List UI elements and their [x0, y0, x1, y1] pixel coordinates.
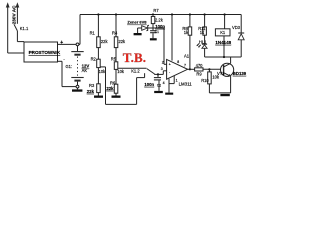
wire — [97, 93, 99, 96]
svg-text:7: 7 — [184, 63, 186, 67]
svg-text:470: 470 — [196, 63, 204, 68]
node R8 top — [189, 13, 191, 15]
svg-text:+: + — [60, 40, 63, 46]
resistor R4 — [112, 30, 126, 47]
svg-text:VD3: VD3 — [232, 25, 241, 30]
wire pin 3 — [158, 71, 167, 75]
collector node wire — [205, 56, 242, 58]
wire pin 8 — [171, 15, 173, 61]
svg-text:A1: A1 — [184, 54, 190, 59]
svg-text:R4: R4 — [112, 30, 118, 35]
resistor R5 — [111, 56, 125, 74]
resistor R7 — [151, 8, 163, 24]
wire pin 1 — [169, 76, 174, 84]
svg-text:C1: C1 — [155, 30, 159, 34]
ground R3 — [94, 96, 103, 98]
svg-text:T.B.: T.B. — [123, 50, 146, 65]
ground C1 — [150, 38, 157, 40]
wire — [97, 68, 99, 84]
top supply bus — [80, 14, 241, 16]
zener diode VD1 6V8 — [138, 25, 149, 33]
resistor R2 — [91, 56, 107, 74]
svg-text:LM311: LM311 — [179, 81, 193, 86]
switch K1.2 — [147, 69, 158, 75]
svg-text:AK: AK — [82, 68, 88, 73]
wire pin 2 — [164, 63, 167, 65]
ground zener — [134, 33, 142, 35]
node R10 top — [208, 68, 210, 70]
wire — [189, 15, 191, 27]
resistor R11 — [198, 26, 206, 35]
node R1 top — [97, 13, 99, 15]
svg-text:R6: R6 — [110, 80, 116, 85]
wire K1 to collector node — [223, 36, 225, 57]
svg-text:Zener 6V8: Zener 6V8 — [127, 20, 147, 25]
wire — [97, 48, 99, 60]
svg-text:8: 8 — [177, 60, 179, 64]
wire R8 to output node — [189, 35, 191, 69]
battery minus terminal — [76, 85, 79, 88]
wire — [204, 15, 206, 27]
wire — [115, 15, 117, 37]
wire op-amp output — [188, 68, 195, 70]
wire — [204, 35, 206, 44]
node pin8 top — [171, 13, 173, 15]
capacitor C2 — [154, 74, 161, 91]
wire — [115, 48, 117, 62]
battery plus terminal — [76, 43, 79, 46]
node K1 top — [224, 13, 226, 15]
node R4 top — [115, 13, 117, 15]
ground R6 — [112, 96, 121, 98]
svg-text:C2: C2 — [157, 84, 161, 88]
ground op-amp — [165, 93, 173, 95]
switch K1.1 — [14, 24, 24, 41]
svg-text:K1: K1 — [220, 30, 226, 35]
svg-text:2: 2 — [162, 61, 164, 65]
svg-text:1N4148: 1N4148 — [215, 40, 231, 45]
LED HL1 — [197, 39, 208, 48]
wire — [115, 69, 117, 84]
op-amp A1 LM311 — [167, 54, 193, 87]
wire zener node to pin2 — [153, 28, 164, 64]
svg-text:R2: R2 — [91, 56, 97, 61]
svg-text:R7: R7 — [153, 8, 159, 13]
wire — [152, 24, 154, 28]
ground battery — [72, 88, 82, 92]
wire — [224, 15, 226, 29]
230V AC input arrow right — [16, 2, 20, 24]
ground emitter — [220, 94, 229, 96]
svg-text:1: 1 — [176, 79, 178, 83]
svg-text:10k: 10k — [117, 69, 125, 74]
node pin 3 — [157, 73, 159, 75]
wire — [203, 68, 221, 70]
ground C2 — [154, 91, 163, 93]
svg-text:HL1: HL1 — [199, 39, 207, 44]
node — [223, 56, 225, 58]
relay K1 — [215, 29, 230, 36]
svg-text:R9: R9 — [196, 71, 202, 76]
wire tap divider1 to K1.2 lower contact — [100, 67, 144, 105]
transistor VT1 BD139 — [217, 57, 247, 93]
battery G1 12V — [71, 46, 83, 85]
svg-text:R5: R5 — [111, 56, 117, 61]
svg-text:G1:: G1: — [66, 64, 73, 69]
svg-text:R10: R10 — [201, 78, 209, 83]
svg-text:BD139: BD139 — [233, 71, 247, 76]
svg-text:22k: 22k — [106, 86, 114, 91]
resistor R8 — [182, 26, 191, 35]
diode VD3 1N4148 — [215, 15, 244, 58]
svg-text:4: 4 — [163, 81, 165, 85]
resistor R9 — [195, 63, 204, 76]
wire — [208, 69, 210, 72]
svg-text:R1: R1 — [90, 30, 96, 35]
svg-text:22k: 22k — [101, 39, 109, 44]
capacitor C1 — [150, 28, 157, 38]
wire pin 4 ground — [168, 79, 170, 93]
wire AC left into rectifier — [8, 52, 24, 54]
wire — [97, 15, 99, 37]
node R11 top — [204, 13, 206, 15]
svg-text:2.2k: 2.2k — [155, 18, 164, 23]
resistor R3 — [87, 83, 100, 94]
minus output wire — [58, 56, 77, 86]
resistor R6 — [106, 80, 117, 93]
svg-text:100n: 100n — [144, 82, 154, 87]
svg-text:3: 3 — [161, 67, 163, 71]
svg-text:+: + — [169, 62, 171, 66]
svg-text:PROSTOWNIK: PROSTOWNIK — [29, 50, 61, 55]
svg-text:230V AC: 230V AC — [11, 5, 16, 24]
svg-text:R3: R3 — [89, 83, 95, 88]
wire LED to collector node — [204, 48, 206, 57]
svg-text:VT1: VT1 — [217, 71, 225, 76]
node R7 top — [152, 13, 154, 15]
wire zener node left — [148, 27, 153, 29]
rectifier box PROSTOWNIK — [24, 42, 61, 62]
resistor R1 — [90, 30, 109, 47]
svg-text:22k: 22k — [119, 39, 127, 44]
svg-text:22k: 22k — [87, 89, 95, 94]
wire — [115, 93, 117, 95]
wire tap divider2 to K1.2 upper contact — [118, 67, 147, 69]
230V AC input arrow left — [6, 2, 10, 53]
svg-text:K1.1: K1.1 — [20, 26, 29, 31]
output node — [189, 68, 191, 70]
resistor R10 — [201, 72, 220, 84]
plus output wire — [58, 15, 81, 46]
wire R10 to ground rail — [209, 84, 230, 93]
svg-text:100n: 100n — [155, 24, 165, 29]
svg-text:K1.2: K1.2 — [131, 68, 140, 73]
